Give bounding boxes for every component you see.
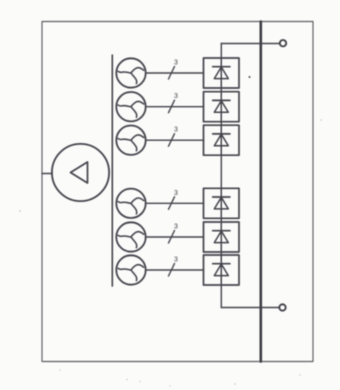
- wire: W3 to rectifier 3: [146, 139, 204, 141]
- three-phase marker on W6 line: [169, 257, 179, 277]
- rectifier D5: [204, 222, 240, 252]
- wire: W1 to rectifier 1: [146, 72, 204, 74]
- wire: series string vertical (top link down through rectifiers): [220, 44, 222, 308]
- svg-text:3: 3: [174, 127, 178, 134]
- winding W4: [116, 189, 145, 218]
- rectifier D3: [204, 125, 240, 155]
- rectifier D2: [204, 92, 240, 122]
- wire: top link to positive terminal: [221, 43, 279, 45]
- wire: W5 to rectifier 5: [146, 236, 204, 238]
- wire: W6 to rectifier 6: [146, 269, 204, 271]
- winding W3: [116, 126, 145, 155]
- wire: W4 to rectifier 4: [146, 202, 204, 204]
- enclosure frame: [42, 22, 313, 362]
- winding bus (vertical line left of windings): [111, 55, 113, 286]
- three-phase marker on W4 line: [169, 190, 179, 210]
- svg-text:3: 3: [174, 93, 178, 100]
- terminal (bottom): [279, 304, 285, 310]
- wire: left border to generator: [42, 173, 52, 175]
- three-phase marker on W3 line: [169, 127, 179, 147]
- svg-text:3: 3: [174, 257, 178, 264]
- svg-text:3: 3: [174, 224, 178, 231]
- rectifier D4: [204, 188, 240, 218]
- generator G (circle with triangle): [52, 144, 109, 201]
- svg-text:3: 3: [174, 190, 178, 197]
- wire: W2 to rectifier 2: [146, 106, 204, 108]
- three-phase marker on W1 line: [169, 60, 179, 80]
- winding W6: [116, 255, 145, 284]
- rectifier D1: [204, 58, 240, 88]
- wire: bottom link to negative terminal: [221, 307, 278, 309]
- three-phase marker on W5 line: [169, 224, 179, 244]
- dc bus (thick vertical): [259, 22, 262, 362]
- terminal (top): [280, 40, 286, 46]
- rectifier D6: [204, 255, 240, 285]
- svg-text:3: 3: [174, 60, 178, 67]
- winding W5: [116, 222, 145, 251]
- three-phase marker on W2 line: [169, 93, 179, 113]
- winding W2: [116, 92, 145, 121]
- winding W1: [116, 58, 145, 87]
